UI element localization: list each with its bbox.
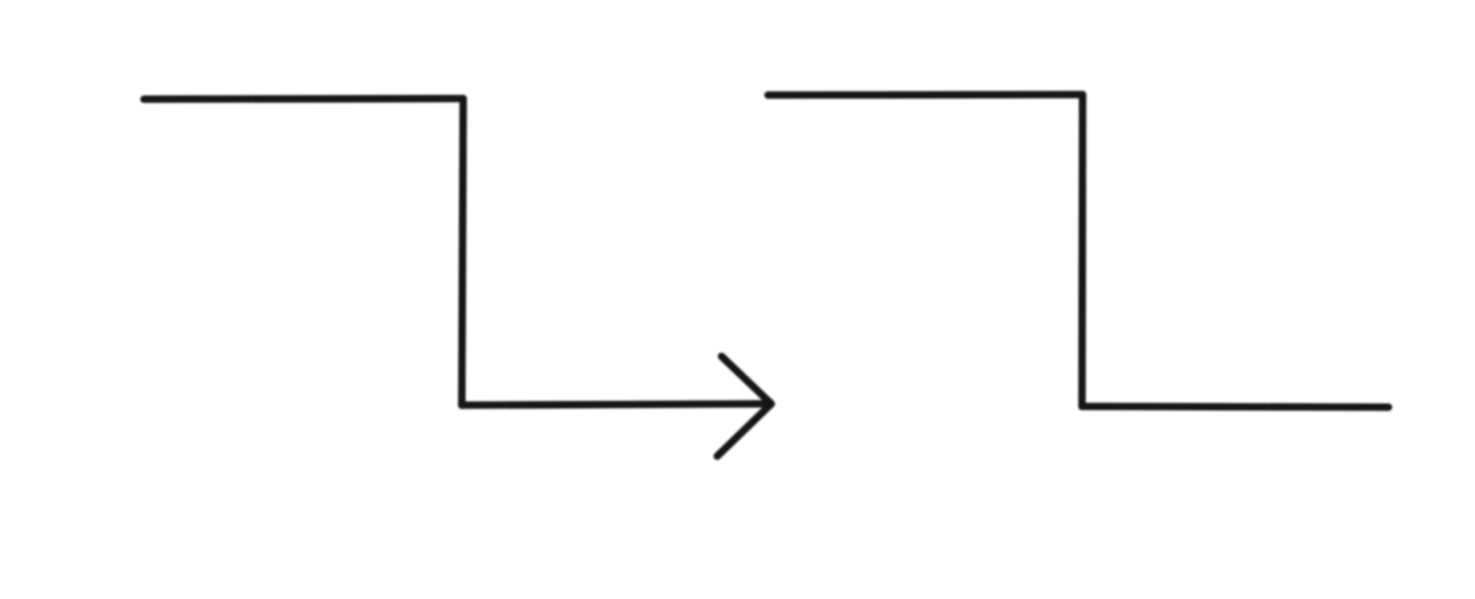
arrowhead	[717, 356, 771, 456]
right waveform high-level segment	[768, 91, 1083, 99]
left waveform low-level segment (arrow shaft)	[462, 404, 771, 405]
right waveform low-level segment	[1082, 403, 1389, 411]
left waveform high-level segment	[144, 95, 463, 103]
right waveform falling edge	[1078, 95, 1086, 407]
left waveform falling edge	[462, 99, 463, 406]
